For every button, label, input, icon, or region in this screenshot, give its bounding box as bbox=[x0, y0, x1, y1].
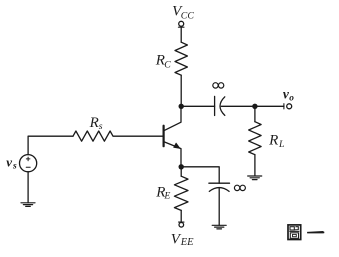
wire vs to Rs bbox=[28, 136, 73, 154]
capacitor Cout plate right curved bbox=[220, 97, 225, 116]
resistor RE bbox=[174, 176, 188, 210]
capacitor CE plate bottom curved bbox=[209, 188, 229, 192]
node collector junction bbox=[179, 104, 184, 109]
infinity label coupling cap bbox=[213, 83, 224, 88]
label VEE bbox=[171, 232, 194, 249]
label vs bbox=[6, 154, 17, 171]
label vo bbox=[283, 86, 294, 103]
resistor RC bbox=[175, 42, 187, 75]
wire output node to vo terminal bbox=[255, 105, 284, 107]
source vs minus bbox=[26, 166, 30, 168]
svg-text:L: L bbox=[278, 139, 284, 150]
capacitor CE plate top bbox=[209, 182, 230, 184]
transistor Q1 emitter bbox=[164, 142, 181, 167]
wire emitter node to bypass cap bbox=[181, 167, 219, 183]
svg-text:CC: CC bbox=[181, 10, 195, 21]
source vs plus bbox=[26, 157, 30, 161]
label RE bbox=[155, 184, 170, 201]
wire CE to ground bbox=[218, 188, 220, 226]
wire VCC to RC bbox=[180, 27, 182, 42]
wire RL to ground bbox=[254, 155, 256, 176]
wire RE to VEE terminal bbox=[180, 210, 182, 222]
wire output node to RL bbox=[254, 106, 256, 121]
svg-text:o: o bbox=[289, 94, 294, 104]
svg-text:s: s bbox=[12, 161, 17, 171]
ground vs bbox=[21, 203, 35, 207]
ground RL bbox=[248, 176, 262, 180]
svg-text:C: C bbox=[164, 59, 171, 70]
label RL bbox=[268, 133, 284, 150]
svg-text:v: v bbox=[6, 154, 12, 169]
ground CE bbox=[212, 225, 226, 229]
svg-text:R: R bbox=[268, 133, 278, 149]
svg-text:E: E bbox=[163, 191, 170, 202]
wire Rs right to base bbox=[114, 135, 164, 137]
figure caption char one bbox=[307, 231, 324, 233]
terminal vo bbox=[284, 104, 292, 109]
transistor Q1 base bar bbox=[163, 126, 165, 147]
capacitor Cout plate left bbox=[214, 96, 216, 115]
figure caption char Tu bbox=[288, 225, 301, 240]
terminal VEE bbox=[179, 222, 185, 227]
svg-text:R: R bbox=[89, 115, 99, 131]
infinity label bypass cap bbox=[234, 185, 245, 190]
resistor RL bbox=[249, 122, 261, 155]
resistor Rs bbox=[73, 131, 113, 141]
wire vs to ground bbox=[27, 172, 29, 203]
terminal VCC bbox=[178, 21, 184, 27]
source vs circle bbox=[20, 155, 37, 172]
transistor Q1 collector bbox=[164, 106, 181, 131]
wire coupling cap to output node bbox=[221, 105, 255, 107]
svg-text:s: s bbox=[99, 121, 103, 132]
svg-text:EE: EE bbox=[180, 237, 194, 248]
wire emitter node to RE bbox=[180, 167, 182, 176]
wire RC to collector node bbox=[180, 75, 182, 106]
node output junction bbox=[252, 104, 257, 109]
label Rs bbox=[89, 115, 103, 132]
node emitter junction bbox=[179, 164, 184, 169]
wire collector node to coupling cap bbox=[181, 105, 214, 107]
transistor Q1 emitter arrow bbox=[174, 143, 180, 148]
label VCC bbox=[172, 3, 194, 21]
label RC bbox=[155, 53, 172, 71]
